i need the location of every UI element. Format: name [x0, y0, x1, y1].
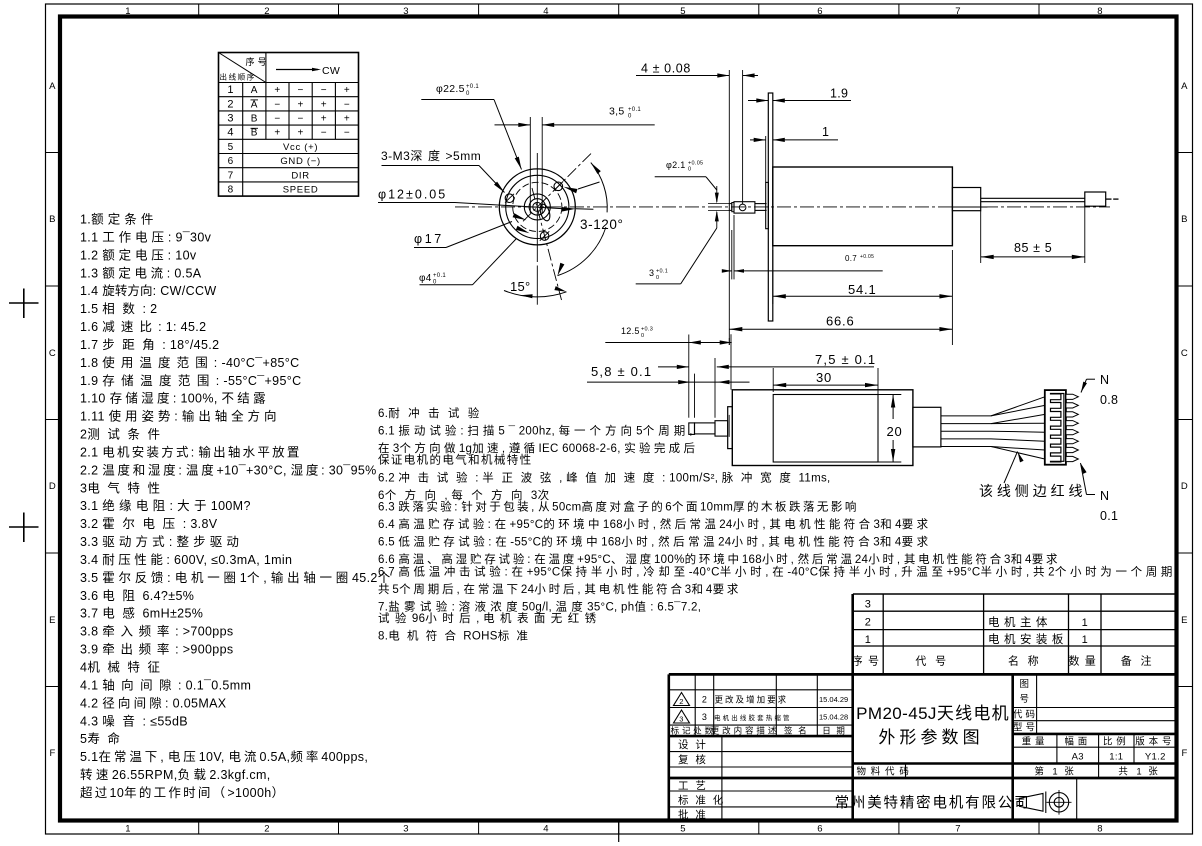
svg-text:复 核: 复 核 [678, 753, 709, 766]
svg-text:1: 1 [1082, 634, 1088, 646]
svg-text:7.盐雾试验: 溶液浓度50g/l, 温度35°C, ph值: 7.盐雾试验: 溶液浓度50g/l, 温度35°C, ph值: 6.5¯7.2, [378, 599, 701, 613]
svg-text:试验96小时后, 电机表面无红锈: 试验96小时后, 电机表面无红锈 [378, 611, 602, 625]
svg-text:N: N [1100, 489, 1109, 503]
projection symbol circle [1049, 793, 1068, 812]
svg-text:代码: 代码 [1013, 709, 1038, 720]
svg-text:+0.1: +0.1 [433, 273, 446, 279]
connector comb [1051, 394, 1064, 462]
svg-text:5: 5 [680, 6, 686, 17]
svg-text:1.10 存储湿度: 100%, 不结露: 1.10 存储湿度: 100%, 不结露 [80, 391, 269, 406]
dim 85pm5 line and arrows [981, 256, 1085, 258]
svg-text:+0.05: +0.05 [860, 254, 874, 260]
svg-text:Vcc (+): Vcc (+) [283, 142, 318, 153]
svg-text:+: + [274, 85, 280, 96]
svg-text:常州美特精密电机有限公司: 常州美特精密电机有限公司 [835, 795, 1031, 812]
front view M3 hole left [505, 194, 514, 203]
top view motor body [773, 167, 953, 246]
svg-text:1: 1 [227, 84, 233, 96]
dim 0.7 extension lines [731, 230, 733, 279]
svg-text:3: 3 [227, 113, 233, 125]
svg-text:φ12±0.05: φ12±0.05 [378, 188, 447, 202]
svg-text:6: 6 [817, 6, 823, 17]
svg-text:1.1 工作电压: 9¯30v: 1.1 工作电压: 9¯30v [80, 230, 212, 244]
pin assignment table grid [219, 53, 359, 197]
svg-text:签 名: 签 名 [784, 725, 810, 735]
svg-text:共 1 张: 共 1 张 [1118, 766, 1161, 777]
svg-text:8: 8 [1097, 6, 1103, 17]
dim 1 extension line boss [765, 136, 767, 182]
svg-text:更改及增加要求: 更改及增加要求 [715, 694, 789, 704]
angle 120 upper arc with arrow [591, 163, 607, 213]
front view M3 hole bottom [540, 232, 549, 241]
svg-text:A: A [251, 99, 258, 110]
title block thick inner horizontals [669, 735, 853, 738]
svg-text:+: + [274, 128, 280, 139]
svg-text:1.11 使用姿势: 输出轴全方向: 1.11 使用姿势: 输出轴全方向 [80, 409, 280, 424]
svg-text:3.5 霍尔反馈: 电机一圈1个, 输出轴一圈45.2个: 3.5 霍尔反馈: 电机一圈1个, 输出轴一圈45.2个 [80, 570, 394, 585]
svg-text:−: − [274, 114, 280, 125]
svg-text:转速26.55RPM,负载2.3kgf.cm,: 转速26.55RPM,负载2.3kgf.cm, [80, 767, 271, 782]
svg-text:0: 0 [466, 91, 470, 97]
centering mark bottom [618, 821, 620, 843]
svg-text:出线顺序: 出线顺序 [220, 72, 256, 82]
svg-text:+0.1: +0.1 [628, 107, 641, 113]
svg-text:1: 1 [125, 6, 131, 17]
svg-text:CW: CW [322, 65, 340, 77]
svg-text:1.9 存储温度范围: -55°C¯+95°C: 1.9 存储温度范围: -55°C¯+95°C [80, 373, 302, 388]
angle 15 arc with arrows [504, 291, 567, 297]
front view circle phi17 [506, 175, 569, 238]
svg-text:1.3 额定电流: 0.5A: 1.3 额定电流: 0.5A [80, 265, 202, 280]
svg-text:15°: 15° [510, 279, 531, 294]
svg-text:3.6 电阻6.4?±5%: 3.6 电阻6.4?±5% [80, 589, 194, 603]
svg-text:3: 3 [649, 268, 654, 278]
svg-text:A3: A3 [1072, 751, 1084, 762]
dim 1.9 line and arrows [748, 100, 768, 102]
leader phi22.5 line and arrow [421, 99, 494, 101]
front view D-cut extension line right [541, 117, 543, 213]
svg-text:4 ± 0.08: 4 ± 0.08 [641, 62, 691, 76]
connector pins [1066, 394, 1078, 399]
pin table header CW arrow [276, 69, 318, 71]
front view vertical centerline [536, 153, 538, 262]
svg-text:2: 2 [679, 697, 683, 706]
svg-text:A: A [1181, 81, 1188, 92]
svg-text:0: 0 [656, 275, 659, 281]
svg-text:F: F [49, 748, 55, 759]
svg-text:15.04.29: 15.04.29 [819, 695, 848, 704]
dim 12.5 line and arrows [605, 342, 731, 344]
svg-text:日 期: 日 期 [822, 725, 848, 735]
svg-text:5: 5 [680, 824, 686, 835]
svg-text:序号: 序号 [852, 654, 885, 668]
dim 20 line and arrows [892, 395, 894, 420]
svg-text:φ2.1: φ2.1 [666, 160, 686, 170]
svg-text:比例: 比例 [1103, 735, 1130, 747]
dim 4pm0.08 line and arrows [636, 75, 729, 77]
dim 66.6 extension down from top view [728, 338, 730, 345]
zone divider ticks left [46, 152, 61, 154]
material code row [905, 764, 907, 779]
front view vertical centerline lower segment [536, 266, 538, 305]
middle view extension verticals [688, 335, 690, 418]
svg-text:标记: 标记 [671, 725, 694, 735]
svg-text:SPEED: SPEED [283, 185, 319, 196]
svg-text:4: 4 [543, 824, 549, 835]
svg-text:6.2 冲击试验: 半正波弦, 峰值加速度: 100m/S²: 6.2 冲击试验: 半正波弦, 峰值加速度: 100m/S², 脉冲宽度11ms… [378, 470, 831, 484]
svg-text:φ17: φ17 [414, 232, 444, 246]
svg-text:4.2 径向间隙: 0.05MAX: 4.2 径向间隙: 0.05MAX [80, 695, 227, 710]
middle view rear step block [913, 407, 941, 447]
svg-text:+0.1: +0.1 [466, 84, 479, 90]
connector housing [1045, 390, 1066, 465]
svg-text:5,8 ± 0.1: 5,8 ± 0.1 [591, 364, 652, 379]
leader N top [1087, 378, 1096, 380]
pin table diagonal header split [219, 53, 266, 83]
svg-text:A: A [251, 85, 258, 96]
middle view motor body [732, 390, 913, 466]
svg-text:1.5 相数: 2: 1.5 相数: 2 [80, 301, 157, 316]
zone divider ticks bottom [198, 821, 200, 835]
leader M3 hole top line and arrow [578, 182, 600, 189]
svg-text:C: C [49, 348, 56, 359]
leader N bottom [1087, 494, 1096, 496]
svg-text:6个方向, 每个方向3次: 6个方向, 每个方向3次 [378, 488, 557, 502]
svg-text:+0.3: +0.3 [641, 327, 653, 333]
svg-text:2: 2 [264, 6, 270, 17]
svg-text:+: + [321, 99, 327, 110]
svg-text:3电气特性: 3电气特性 [80, 480, 168, 495]
svg-text:5.1在常温下, 电压10V, 电流0.5A,频率400pp: 5.1在常温下, 电压10V, 电流0.5A,频率400pps, [80, 749, 368, 764]
middle view plate inner line [728, 415, 730, 437]
svg-text:GND (−): GND (−) [280, 156, 321, 167]
svg-text:工 艺: 工 艺 [678, 780, 709, 792]
svg-text:3,5: 3,5 [609, 106, 625, 118]
svg-text:30: 30 [816, 370, 832, 385]
svg-text:在3个方向做1g加速, 遵循IEC 60068-2-6, 实: 在3个方向做1g加速, 遵循IEC 60068-2-6, 实验完成后 [378, 441, 698, 455]
svg-text:4: 4 [543, 6, 549, 17]
projection symbol cone [1019, 793, 1043, 811]
right info labels [1036, 674, 1038, 734]
svg-text:E: E [49, 615, 56, 626]
svg-text:6: 6 [817, 824, 823, 835]
svg-text:B: B [251, 128, 258, 139]
svg-text:8: 8 [228, 185, 234, 196]
svg-text:保证电机的电气和机械特性: 保证电机的电气和机械特性 [378, 453, 533, 467]
front view M3 hole top-right [554, 182, 563, 191]
svg-text:型号: 型号 [1013, 722, 1038, 733]
svg-text:1.7 步距角: 18°/45.2: 1.7 步距角: 18°/45.2 [80, 338, 219, 352]
svg-text:−: − [321, 128, 327, 139]
svg-text:7: 7 [955, 824, 961, 835]
svg-text:0: 0 [641, 333, 644, 339]
svg-text:3: 3 [403, 824, 409, 835]
svg-text:A: A [49, 81, 56, 92]
dim 4 extension line pin center [742, 70, 744, 204]
svg-text:第 1 张: 第 1 张 [1034, 765, 1077, 777]
svg-text:数量: 数量 [1068, 655, 1101, 668]
svg-text:+: + [344, 85, 350, 96]
svg-text:7: 7 [955, 6, 961, 17]
svg-text:−: − [298, 114, 304, 125]
svg-text:Y1.2: Y1.2 [1145, 751, 1166, 762]
svg-text:设 计: 设 计 [678, 738, 709, 751]
svg-text:1.8 使用温度范围: -40°C¯+85°C: 1.8 使用温度范围: -40°C¯+85°C [80, 355, 300, 370]
svg-text:1.9: 1.9 [830, 87, 848, 101]
svg-text:6.1 振动试验: 扫描5 ¯ 200hz, 每一个方向5个: 6.1 振动试验: 扫描5 ¯ 200hz, 每一个方向5个周期, [378, 423, 693, 437]
dim phi2.1 extension lines on shaft [708, 203, 729, 205]
top view gearbox block [952, 188, 980, 211]
svg-text:1.额定条件: 1.额定条件 [80, 212, 158, 227]
dim 85pm5 extension lines [980, 211, 982, 263]
svg-text:2测试条件: 2测试条件 [80, 427, 168, 442]
front view circle phi12 [524, 194, 550, 220]
svg-text:1.2 额定电压: 10v: 1.2 额定电压: 10v [80, 247, 197, 262]
leader phi17 line and arrow [414, 247, 446, 249]
svg-text:3.8 牵入频率: >700pps: 3.8 牵入频率: >700pps [80, 624, 234, 639]
dim 54.1 line and arrows [773, 295, 953, 297]
svg-text:3.1 绝缘电阻: 大于100M?: 3.1 绝缘电阻: 大于100M? [80, 498, 251, 513]
top view antenna rod [981, 197, 1085, 199]
svg-text:1: 1 [125, 824, 131, 835]
svg-text:−: − [344, 128, 350, 139]
svg-text:B: B [251, 114, 258, 125]
svg-text:3.9 牵出频率: >900pps: 3.9 牵出频率: >900pps [80, 642, 234, 657]
front view circle smallest [533, 202, 542, 211]
dimension 3.5 line and arrows [495, 124, 531, 126]
svg-text:4.3 噪音: ≤55dB: 4.3 噪音: ≤55dB [80, 713, 188, 728]
svg-text:8: 8 [1097, 824, 1103, 835]
middle view wires [941, 415, 991, 417]
svg-text:超过10年的工作时间（>1000h）: 超过10年的工作时间（>1000h） [80, 785, 286, 800]
svg-text:φ4: φ4 [419, 273, 432, 284]
dim 4 extension line shaft tip [728, 70, 730, 204]
top view mounting plate [768, 93, 773, 321]
svg-text:DIR: DIR [291, 170, 309, 181]
svg-text:3: 3 [403, 6, 409, 17]
svg-text:4.1 轴向间隙: 0.1¯0.5mm: 4.1 轴向间隙: 0.1¯0.5mm [80, 677, 251, 692]
svg-text:−: − [298, 85, 304, 96]
svg-text:5寿命: 5寿命 [80, 731, 128, 746]
svg-text:20: 20 [887, 424, 903, 439]
svg-text:3: 3 [865, 599, 871, 611]
svg-text:更改内容描述: 更改内容描述 [711, 725, 780, 735]
middle view shaft mid section [695, 423, 716, 434]
svg-text:该线侧边红线: 该线侧边红线 [979, 483, 1086, 499]
front view 15deg slanted centerline [532, 188, 562, 300]
svg-text:1.6 减速比: 1: 45.2: 1.6 减速比: 1: 45.2 [80, 320, 206, 334]
svg-text:4机械特征: 4机械特征 [80, 660, 168, 675]
top view shaft boss [766, 182, 769, 228]
svg-text:+: + [321, 114, 327, 125]
leader red wire note [1004, 452, 1018, 484]
title block thick outline [667, 674, 670, 820]
svg-text:3-120°: 3-120° [580, 217, 624, 232]
svg-text:2: 2 [865, 617, 871, 629]
svg-text:−: − [274, 99, 280, 110]
weight scale header grid [1056, 734, 1058, 764]
svg-text:15.04.28: 15.04.28 [819, 713, 848, 722]
top view shaft washer [732, 203, 734, 212]
svg-text:6: 6 [228, 156, 234, 167]
svg-text:B: B [1181, 214, 1188, 225]
svg-text:1: 1 [822, 125, 829, 139]
dim 20 label [884, 421, 903, 438]
middle view shaft large section [715, 421, 728, 436]
svg-text:3: 3 [679, 715, 683, 724]
svg-text:2.2 温度和湿度: 温度+10¯+30°C, 湿度: 30: 2.2 温度和湿度: 温度+10¯+30°C, 湿度: 30¯95% [80, 462, 377, 477]
front view bolt circle dashed [513, 182, 562, 231]
svg-text:+: + [298, 99, 304, 110]
middle view shaft tip [689, 423, 695, 435]
svg-text:3.2 霍尔电压: 3.8V: 3.2 霍尔电压: 3.8V [80, 516, 218, 531]
signature table grid [721, 736, 723, 820]
svg-text:3.4 耐压性能: 600V, ≤0.3mA, 1min: 3.4 耐压性能: 600V, ≤0.3mA, 1min [80, 553, 292, 567]
svg-text:3: 3 [702, 712, 707, 722]
dim 7.5 line and arrows [658, 366, 689, 368]
dim 3 leader [636, 283, 681, 285]
svg-text:标 准 化: 标 准 化 [678, 794, 727, 807]
svg-text:85 ± 5: 85 ± 5 [1014, 241, 1052, 255]
svg-text:66.6: 66.6 [826, 314, 855, 329]
svg-text:8.电机符合ROHS标准: 8.电机符合ROHS标准 [378, 628, 535, 642]
svg-text:图: 图 [1020, 679, 1032, 690]
svg-text:3.3 驱动方式: 整步驱动: 3.3 驱动方式: 整步驱动 [80, 534, 243, 549]
svg-text:备 注: 备 注 [1121, 654, 1157, 668]
svg-text:号: 号 [1020, 694, 1032, 705]
svg-text:54.1: 54.1 [848, 282, 877, 297]
projection symbol cell divider [1076, 778, 1078, 821]
svg-text:D: D [49, 481, 56, 492]
svg-text:2.1 电机安装方式: 输出轴水平放置: 2.1 电机安装方式: 输出轴水平放置 [80, 444, 302, 459]
svg-text:7: 7 [228, 170, 234, 181]
svg-text:4: 4 [227, 127, 233, 139]
svg-text:φ22.5: φ22.5 [436, 83, 465, 95]
svg-text:0.8: 0.8 [1100, 393, 1118, 407]
dim 66.6 line and arrows [729, 328, 952, 330]
svg-text:6.耐冲击试验: 6.耐冲击试验 [378, 406, 488, 420]
svg-text:3.7 电感6mH±25%: 3.7 电感6mH±25% [80, 606, 203, 621]
dim 1 line and arrows [750, 139, 766, 141]
dim 30 extension lines [772, 368, 774, 392]
svg-text:E: E [1181, 615, 1188, 626]
top view antenna tip block [1085, 192, 1106, 206]
svg-text:+: + [298, 128, 304, 139]
dim 30 line and arrows [773, 384, 878, 386]
top view antenna tip pin [1106, 198, 1112, 200]
svg-text:3-M3深度>5mm: 3-M3深度>5mm [381, 148, 481, 163]
svg-text:代 号: 代 号 [915, 655, 951, 668]
revision mark triangle 3 [674, 710, 690, 723]
top view shaft [755, 203, 767, 205]
zone divider ticks right [1177, 152, 1193, 154]
front view D-cut extension line left [529, 117, 531, 213]
top view collet pin hole [739, 204, 746, 211]
svg-text:幅面: 幅面 [1064, 735, 1091, 747]
svg-text:7,5 ± 0.1: 7,5 ± 0.1 [815, 352, 876, 367]
front view outer circle phi22.5 [499, 169, 575, 245]
front view 45deg hole centerline [523, 153, 592, 221]
svg-text:B: B [49, 214, 56, 225]
centering mark lower left [9, 526, 39, 528]
svg-text:6.5 低温贮存试验: 在-55°C的环境中168小时, 然: 6.5 低温贮存试验: 在-55°C的环境中168小时, 然后常温24小时, 其… [378, 534, 932, 548]
svg-text:C: C [1181, 348, 1188, 359]
svg-text:12.5: 12.5 [621, 326, 640, 336]
middle view front plate [728, 407, 733, 449]
sheet count row [1098, 764, 1100, 779]
revision mark triangle 2 [674, 693, 690, 706]
top view worm collet [734, 202, 755, 213]
svg-text:1.4 旋转方向: CW/CCW: 1.4 旋转方向: CW/CCW [80, 283, 217, 298]
dim phi2.1 leader and vertical arrows [655, 176, 706, 178]
svg-text:6.4 高温贮存试验: 在+95°C的环境中168小时, 然: 6.4 高温贮存试验: 在+95°C的环境中168小时, 然后常温24小时, 其… [378, 517, 932, 531]
svg-text:名 称: 名 称 [1008, 654, 1044, 668]
svg-text:序号: 序号 [246, 56, 270, 67]
middle view inner can [773, 395, 878, 463]
svg-text:D: D [1181, 481, 1188, 492]
svg-text:0: 0 [628, 114, 632, 120]
svg-text:2: 2 [264, 824, 270, 835]
svg-text:2: 2 [702, 694, 707, 704]
svg-text:电机安装板: 电机安装板 [988, 632, 1068, 646]
svg-text:+: + [344, 114, 350, 125]
svg-text:F: F [1181, 748, 1187, 759]
parts list table grid [853, 593, 1177, 595]
svg-text:0.7: 0.7 [845, 254, 857, 263]
svg-text:−: − [344, 99, 350, 110]
dim 20 extension lines [878, 394, 901, 396]
leader 3-M3 line and arrow [382, 165, 480, 167]
leader phi4 line and arrow [420, 284, 473, 286]
svg-text:N: N [1100, 373, 1109, 387]
svg-text:1: 1 [1082, 617, 1088, 629]
svg-text:0.1: 0.1 [1100, 509, 1118, 523]
svg-text:1: 1 [865, 634, 871, 646]
svg-text:6.3 跌落实验: 针对于包装, 从50cm高度对盒子的6个: 6.3 跌落实验: 针对于包装, 从50cm高度对盒子的6个面10mm厚的木板跌… [378, 500, 859, 514]
front view shaft D-cut ellipse [538, 203, 551, 222]
front view circle inner [529, 199, 545, 215]
svg-text:电机主体: 电机主体 [988, 615, 1052, 629]
top view gearbox centerline stub [952, 206, 987, 208]
svg-text:+0.1: +0.1 [656, 269, 668, 275]
revision table grid [694, 674, 696, 736]
dim 0.7 line and arrows [722, 270, 732, 272]
svg-text:−: − [321, 85, 327, 96]
dim 54.1 extension left [772, 250, 774, 304]
svg-text:共5个周期后, 在常温下24小时后, 其电机性能符合3和4要: 共5个周期后, 在常温下24小时后, 其电机性能符合3和4要求 [378, 582, 741, 596]
dim 5.8 line and arrows [587, 381, 750, 383]
svg-text:批 准: 批 准 [678, 808, 709, 821]
svg-text:外形参数图: 外形参数图 [878, 728, 983, 747]
svg-text:0: 0 [688, 167, 691, 173]
svg-text:重量: 重量 [1022, 735, 1049, 747]
svg-text:5: 5 [228, 142, 234, 153]
svg-text:1:1: 1:1 [1109, 751, 1123, 762]
centering mark upper left [9, 302, 39, 304]
svg-text:物料代码: 物料代码 [857, 765, 914, 777]
zone divider ticks top [198, 4, 200, 17]
top view shaft tip [729, 204, 732, 211]
svg-text:PM20-45J天线电机: PM20-45J天线电机 [856, 704, 1010, 723]
dim 54.1/66.6 extension right [951, 250, 953, 345]
svg-text:6.7 高低温冲击试验: 在+95°C保持半小时, 冷却至: 6.7 高低温冲击试验: 在+95°C保持半小时, 冷却至-40°C半小时, 在… [378, 564, 1180, 578]
svg-text:版本号: 版本号 [1135, 735, 1175, 747]
leader phi12 line and arrow [378, 202, 455, 204]
angle 120 lower arc with arrow [558, 227, 606, 276]
front view horizontal centerline [455, 206, 1110, 208]
svg-text:电机出线胶套热缩管: 电机出线胶套热缩管 [714, 713, 792, 722]
svg-text:6.6 高温、高湿贮存试验: 在温度+95°C、湿度100%: 6.6 高温、高湿贮存试验: 在温度+95°C、湿度100%的环境中168小时,… [378, 552, 1060, 566]
